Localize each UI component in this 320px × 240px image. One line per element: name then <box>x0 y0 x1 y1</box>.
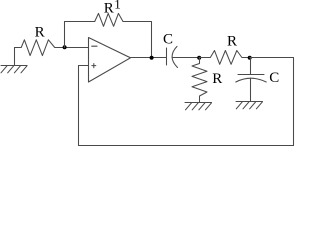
capacitor C (shunt, right) <box>236 75 266 102</box>
node D <box>248 56 252 60</box>
op-amp U1 <box>89 38 131 83</box>
svg-text:R: R <box>212 71 222 87</box>
resistor R1 (feedback) <box>95 13 123 26</box>
wire (node A to op-amp inverting input) <box>65 47 89 49</box>
svg-text:1: 1 <box>114 0 121 12</box>
wire (top feedback right segment) <box>123 22 152 58</box>
resistor R (left input) <box>15 40 65 56</box>
label R (left resistor) <box>35 25 45 41</box>
ground <box>185 103 212 110</box>
label C (series capacitor) <box>163 32 173 48</box>
svg-text:R: R <box>35 25 45 41</box>
resistor R (shunt, vertical) <box>192 58 207 103</box>
svg-text:C: C <box>163 32 173 48</box>
svg-text:R: R <box>227 34 237 50</box>
label C (shunt capacitor) <box>269 70 279 86</box>
svg-text:R: R <box>104 1 114 17</box>
ground <box>1 48 27 73</box>
label R1 (feedback resistor) <box>104 0 121 17</box>
label R (shunt resistor) <box>212 71 222 87</box>
wire (node D down to capacitor) <box>250 58 252 75</box>
node B <box>150 56 154 60</box>
svg-text:C: C <box>269 70 279 86</box>
wire (node A up to feedback) <box>64 22 66 48</box>
resistor R (series, right) <box>199 51 250 65</box>
wire (capacitor to node C) <box>173 57 199 59</box>
capacitor C (series coupling) <box>167 46 178 67</box>
wire (right side: node D to bottom return) <box>250 58 294 146</box>
wire (bottom return) <box>79 145 294 147</box>
label R (right series resistor) <box>227 34 237 50</box>
wire (top feedback left segment) <box>65 21 95 23</box>
ground <box>236 102 263 109</box>
node A <box>63 45 67 49</box>
node C <box>197 56 201 60</box>
wire (op-amp output to node B and capacitor) <box>131 57 167 59</box>
wire (op-amp non-inverting input stub) <box>79 66 89 146</box>
